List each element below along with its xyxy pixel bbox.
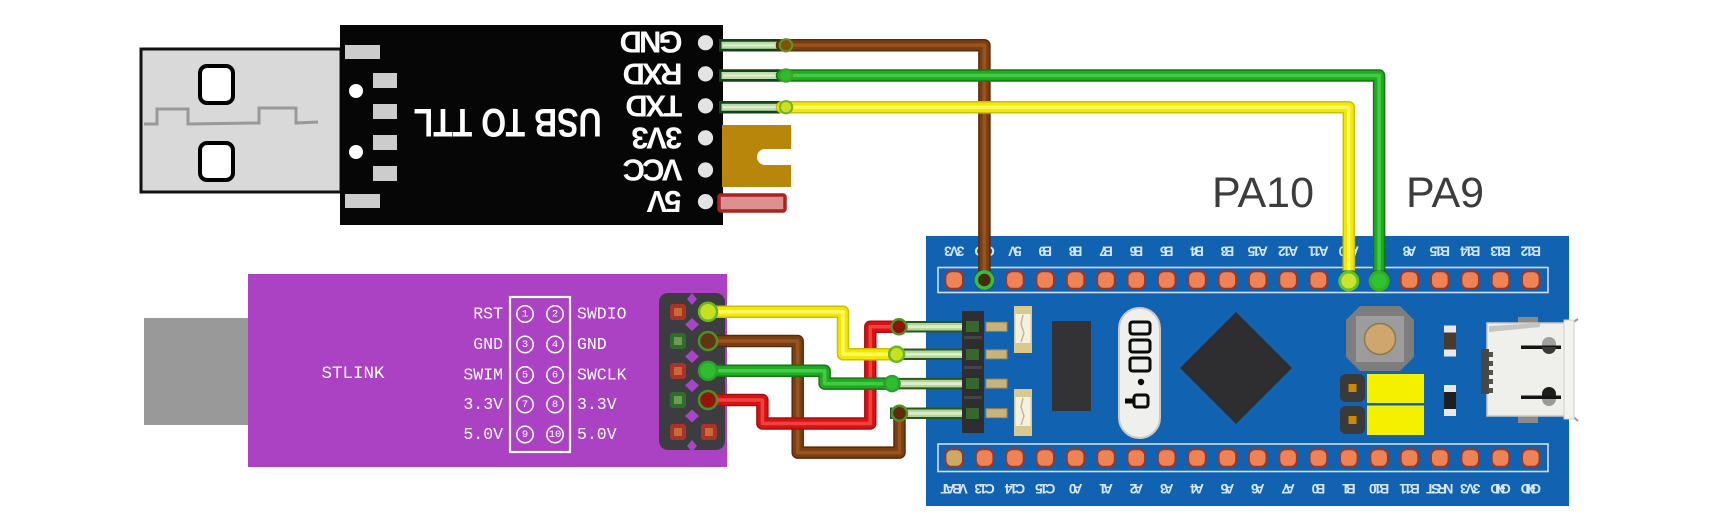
- svg-text:GND: GND: [577, 335, 607, 354]
- svg-text:A7: A7: [1281, 481, 1295, 496]
- svg-text:A0: A0: [1068, 481, 1082, 496]
- svg-text:4: 4: [552, 339, 558, 351]
- svg-text:A8: A8: [1402, 244, 1416, 259]
- svg-text:B4: B4: [1190, 244, 1204, 259]
- svg-text:PA9: PA9: [1406, 169, 1484, 217]
- USB-A plug of USB-TTL module: [141, 49, 341, 192]
- 5V pin stub (red): [719, 195, 785, 211]
- svg-text:B3: B3: [1220, 244, 1234, 259]
- USB-TTL GND header pin: [719, 39, 780, 52]
- svg-text:B14: B14: [1460, 244, 1481, 259]
- voltage regulator U2: [1052, 321, 1091, 411]
- svg-text:SWCLK: SWCLK: [577, 366, 627, 385]
- SMD resistor R1: [1444, 326, 1456, 357]
- svg-text:8: 8: [552, 399, 558, 411]
- wire green2: STLINK SWCLK to SWD SWCLK: [708, 371, 892, 384]
- svg-text:B10: B10: [1369, 481, 1390, 496]
- svg-text:2: 2: [552, 309, 558, 321]
- STLINK pin table frame: [510, 297, 570, 452]
- svg-text:5.0V: 5.0V: [463, 425, 503, 444]
- svg-text:3.3V: 3.3V: [577, 395, 617, 414]
- SMD resistor R2: [1444, 385, 1456, 416]
- STM32 Blue Pill board: [926, 236, 1569, 506]
- wire brown2: STLINK GND to SWD GND: [708, 341, 900, 453]
- svg-text:A1: A1: [1099, 481, 1113, 496]
- svg-text:RST: RST: [473, 305, 503, 324]
- svg-text:A5: A5: [1220, 481, 1234, 496]
- svg-text:A12: A12: [1278, 244, 1299, 259]
- svg-text:B5: B5: [1160, 244, 1174, 259]
- svg-text:3.3V: 3.3V: [463, 395, 503, 414]
- svg-text:B9: B9: [1038, 244, 1052, 259]
- svg-text:3V3: 3V3: [631, 120, 682, 155]
- BOOT jumper shunts (yellow): [1367, 374, 1424, 435]
- STLINK output connector: [659, 293, 725, 452]
- Blue Pill top pin-row box: [938, 268, 1548, 293]
- wire end junctions: [699, 39, 1388, 421]
- micro-USB connector J1: [1481, 317, 1578, 423]
- svg-text:C14: C14: [1004, 481, 1025, 496]
- svg-text:7: 7: [522, 399, 528, 411]
- svg-text:GND: GND: [473, 335, 503, 354]
- svg-text:C15: C15: [1035, 481, 1056, 496]
- svg-text:NRST: NRST: [1426, 481, 1454, 496]
- svg-text:B13: B13: [1490, 244, 1511, 259]
- STLINK left pin labels: [463, 305, 503, 445]
- wire brown: USB-TTL GND to Blue Pill G pin: [782, 45, 984, 283]
- svg-text:5V: 5V: [1007, 244, 1021, 259]
- svg-text:B15: B15: [1429, 244, 1450, 259]
- svg-text:A3: A3: [1160, 481, 1174, 496]
- svg-text:GND: GND: [620, 24, 683, 59]
- wire yellow2: STLINK SWDIO to SWD SWDIO: [708, 312, 897, 355]
- svg-text:B6: B6: [1129, 244, 1143, 259]
- Blue Pill bottom header pins: [945, 448, 1541, 467]
- svg-text:6: 6: [552, 370, 558, 382]
- svg-text:3: 3: [522, 339, 528, 351]
- svg-text:A15: A15: [1247, 244, 1268, 259]
- svg-text:B7: B7: [1099, 244, 1113, 259]
- Blue Pill bottom pin labels: [940, 481, 1541, 496]
- STLINK right pin labels: [577, 305, 627, 445]
- svg-text:A6: A6: [1251, 481, 1265, 496]
- Blue Pill top pin labels: [944, 244, 1541, 259]
- LED D2: [1014, 389, 1032, 436]
- svg-text:PA10: PA10: [1212, 169, 1314, 217]
- USB TO TTL module PCB U1: [340, 25, 723, 225]
- STLINK pin table numbers: [517, 306, 563, 443]
- svg-text:3V3: 3V3: [944, 244, 965, 259]
- svg-text:10: 10: [549, 429, 562, 441]
- wire yellow: USB-TTL TXD to Blue Pill A10: [782, 107, 1349, 283]
- svg-text:A4: A4: [1190, 481, 1204, 496]
- Blue Pill SWD header pins (4 stubs): [890, 327, 965, 413]
- svg-text:USB TO TTL: USB TO TTL: [414, 100, 602, 144]
- USB-TTL pin holes: [698, 35, 713, 209]
- svg-text:A2: A2: [1129, 481, 1143, 496]
- wire red: STLINK 3.3V to SWD 3.3V: [708, 327, 899, 424]
- Blue Pill SWD solder pads: [986, 322, 1007, 417]
- STLINK USB plug: [144, 318, 248, 425]
- USB-TTL TXD header pin: [719, 101, 780, 114]
- Blue Pill bottom pin-row box: [938, 444, 1548, 472]
- Blue Pill top header pins: [945, 270, 1541, 289]
- BOOT jumper pins: [1340, 374, 1365, 434]
- svg-text:5.0V: 5.0V: [577, 425, 617, 444]
- USB-TTL RXD header pin: [719, 69, 780, 82]
- svg-text:GND: GND: [1521, 481, 1541, 496]
- svg-text:5: 5: [522, 370, 528, 382]
- gold jumper on 3V3/VCC pins: [722, 125, 791, 187]
- svg-text:VCC: VCC: [623, 153, 683, 188]
- USB-TTL pin labels (GND RXD TXD 3V3 VCC 5V): [620, 24, 683, 219]
- svg-text:A11: A11: [1308, 244, 1329, 259]
- svg-text:TXD: TXD: [625, 89, 682, 124]
- STM32 chip U3 (diamond): [1180, 312, 1292, 424]
- svg-text:1: 1: [522, 309, 528, 321]
- LED D1: [1014, 306, 1032, 353]
- svg-text:B8: B8: [1068, 244, 1082, 259]
- crystal Y1: [1119, 308, 1160, 438]
- svg-text:9: 9: [522, 429, 528, 441]
- svg-text:GND: GND: [1490, 481, 1510, 496]
- svg-text:SWIM: SWIM: [463, 366, 503, 385]
- svg-text:B12: B12: [1520, 244, 1541, 259]
- Blue Pill SWD header body: [962, 311, 984, 433]
- wire green: USB-TTL RXD to Blue Pill A9: [782, 76, 1379, 284]
- svg-text:VBAT: VBAT: [940, 481, 968, 496]
- svg-text:SWDIO: SWDIO: [577, 305, 627, 324]
- svg-text:C13: C13: [974, 481, 995, 496]
- svg-text:5V: 5V: [646, 184, 681, 219]
- svg-text:RXD: RXD: [623, 57, 683, 92]
- svg-text:STLINK: STLINK: [321, 364, 385, 384]
- reset button SW1: [1346, 306, 1414, 371]
- svg-text:B1: B1: [1342, 481, 1356, 496]
- connected pin pads (teal): [975, 270, 1389, 289]
- svg-text:B0: B0: [1311, 481, 1325, 496]
- svg-text:3V3: 3V3: [1460, 481, 1481, 496]
- svg-text:B11: B11: [1399, 481, 1420, 496]
- STLINK programmer board: [248, 274, 727, 467]
